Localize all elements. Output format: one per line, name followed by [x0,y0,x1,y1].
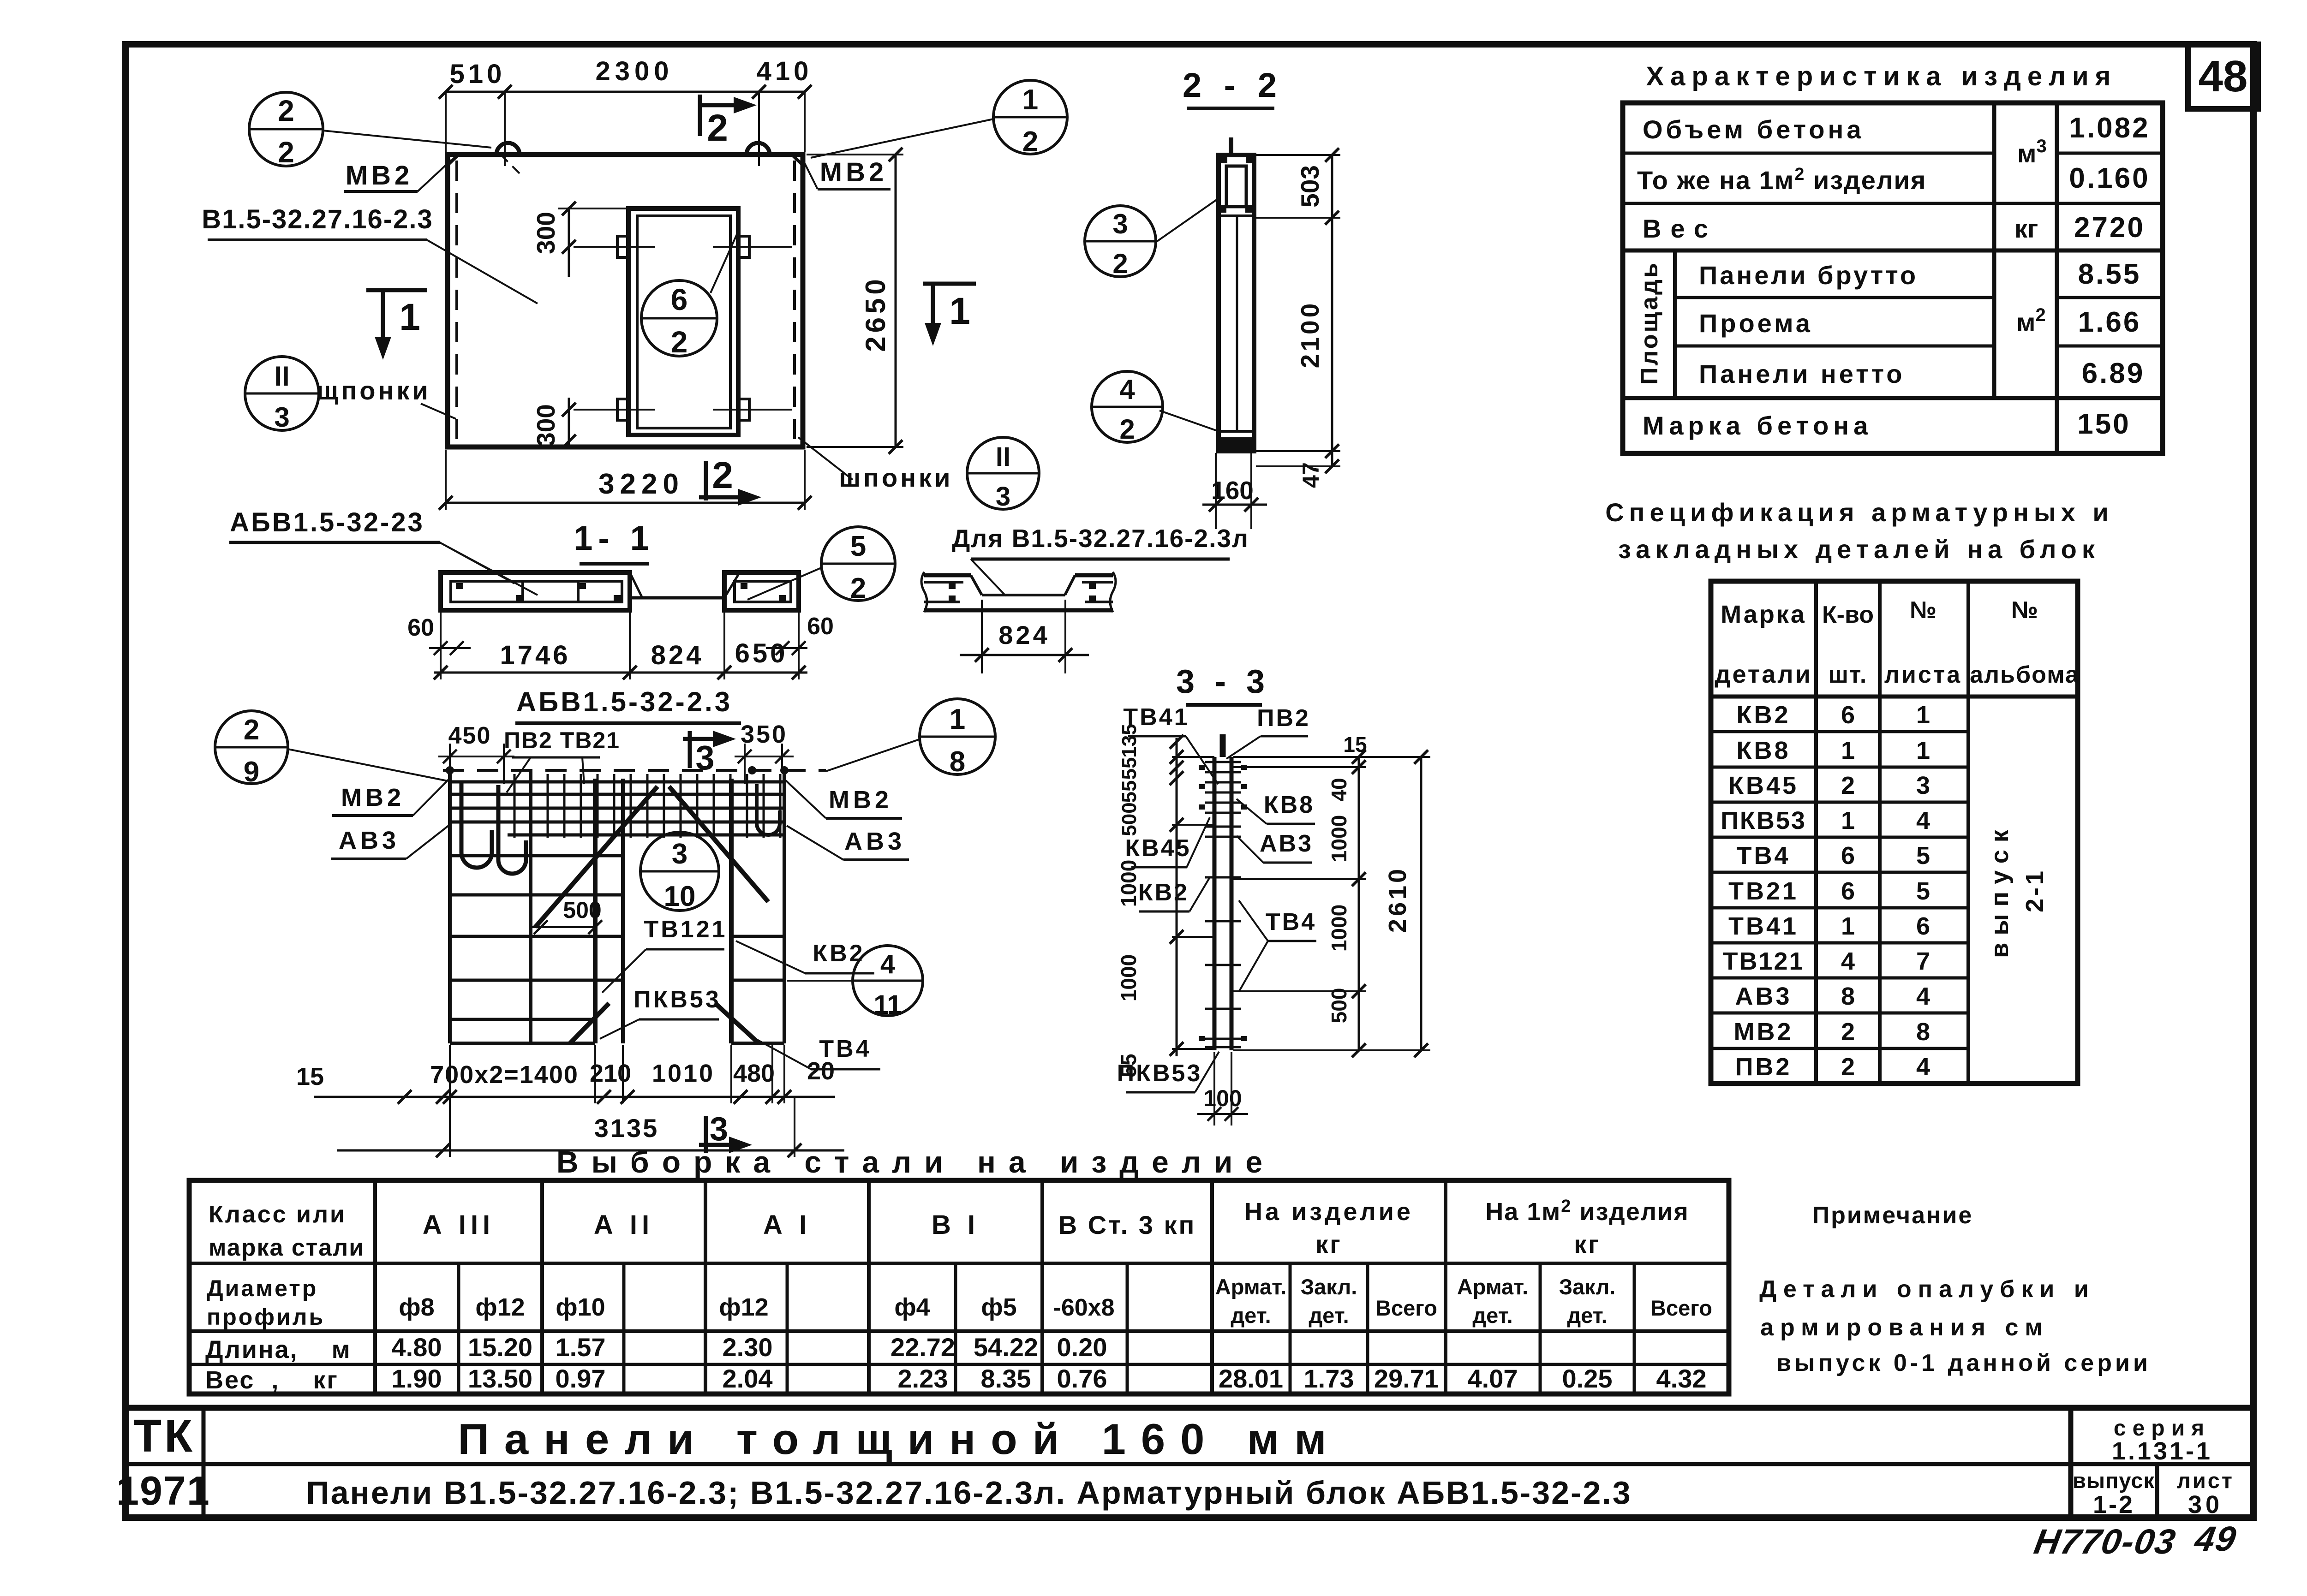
svg-text:шпонки: шпонки [839,463,953,492]
svg-text:Детали опалубки и: Детали опалубки и [1759,1276,2095,1303]
svg-text:8: 8 [1916,1018,1930,1046]
svg-text:0.76: 0.76 [1057,1364,1107,1393]
svg-text:450: 450 [448,722,491,749]
svg-text:8: 8 [950,746,965,778]
svg-text:кг: кг [1574,1231,1601,1258]
svg-text:II: II [996,442,1010,472]
svg-text:ф10: ф10 [556,1293,605,1321]
svg-text:22.72: 22.72 [891,1333,955,1362]
svg-text:закладных деталей на блок: закладных деталей на блок [1618,535,2100,564]
svg-text:Армат.: Армат. [1215,1274,1286,1299]
svg-text:29.71: 29.71 [1374,1364,1439,1393]
svg-text:АБВ1.5-32-23: АБВ1.5-32-23 [230,507,424,537]
svg-text:8: 8 [1841,983,1855,1010]
svg-text:4: 4 [1916,1053,1930,1081]
svg-text:На изделие: На изделие [1244,1198,1413,1226]
svg-text:1: 1 [1916,737,1930,764]
svg-text:детали: детали [1715,661,1812,688]
svg-text:510: 510 [450,59,506,89]
svg-text:То же на 1м2 изделия: То же на 1м2 изделия [1637,165,1927,195]
svg-text:47: 47 [1298,462,1324,488]
svg-text:1000: 1000 [1117,954,1141,1001]
svg-text:выпуск: выпуск [1986,822,2014,958]
svg-text:60: 60 [407,614,434,641]
svg-text:Всего: Всего [1650,1296,1712,1320]
svg-text:1.082: 1.082 [2069,112,2150,144]
svg-text:ПВ2: ПВ2 [1735,1053,1792,1081]
svg-text:1.57: 1.57 [556,1333,606,1362]
svg-text:6: 6 [671,282,688,316]
svg-text:ф12: ф12 [475,1293,525,1321]
svg-text:ТВ121: ТВ121 [1722,947,1804,975]
svg-text:49: 49 [2191,1520,2240,1559]
svg-text:2: 2 [278,136,294,169]
svg-text:АВ3: АВ3 [1735,983,1792,1010]
svg-text:КВ8: КВ8 [1737,737,1791,764]
svg-text:1.66: 1.66 [2078,306,2141,338]
svg-text:шт.: шт. [1829,661,1868,688]
svg-text:0.25: 0.25 [1562,1364,1613,1393]
svg-text:2: 2 [1112,248,1128,279]
svg-text:Закл.: Закл. [1559,1274,1616,1299]
svg-text:МВ2: МВ2 [1733,1018,1793,1046]
svg-text:ТВ121: ТВ121 [644,916,727,943]
svg-text:700х2=1400: 700х2=1400 [430,1061,579,1089]
svg-text:4.32: 4.32 [1656,1364,1707,1393]
svg-text:650: 650 [735,638,788,668]
svg-text:20: 20 [807,1057,835,1085]
svg-text:№: № [2011,597,2038,624]
svg-text:профиль: профиль [207,1304,325,1330]
svg-text:4: 4 [1916,807,1930,834]
svg-text:ПВ2 ТВ21: ПВ2 ТВ21 [504,727,620,753]
svg-text:Марка бетона: Марка бетона [1643,411,1872,440]
svg-text:Проема: Проема [1699,309,1813,338]
svg-text:15: 15 [1343,732,1367,756]
svg-text:15.20: 15.20 [468,1333,532,1362]
svg-text:ПКВ53: ПКВ53 [634,986,721,1013]
svg-text:КВ45: КВ45 [1728,772,1799,799]
svg-text:1000: 1000 [1327,905,1351,952]
svg-text:2: 2 [671,325,688,359]
svg-text:КВ2: КВ2 [1737,701,1791,729]
svg-text:2-1: 2-1 [2021,868,2049,912]
svg-text:кг: кг [1315,1231,1342,1258]
svg-text:1746: 1746 [500,640,570,670]
svg-text:4.80: 4.80 [392,1333,442,1362]
svg-text:210: 210 [590,1060,631,1087]
svg-text:Армат.: Армат. [1457,1274,1528,1299]
svg-text:6: 6 [1841,842,1855,869]
svg-text:1971: 1971 [116,1468,210,1513]
svg-text:выпуск: выпуск [2073,1468,2155,1493]
svg-text:160: 160 [1211,476,1254,505]
svg-text:1.73: 1.73 [1304,1364,1354,1393]
svg-text:Н770-03: Н770-03 [2031,1523,2179,1561]
svg-text:А II: А II [594,1210,654,1240]
svg-text:2 - 2: 2 - 2 [1183,66,1283,104]
svg-text:2: 2 [1022,126,1038,158]
svg-text:8.35: 8.35 [981,1364,1031,1393]
svg-text:1: 1 [1841,737,1855,764]
svg-text:Марка: Марка [1721,601,1806,628]
svg-text:3 - 3: 3 - 3 [1176,663,1270,700]
svg-text:60: 60 [807,613,834,640]
svg-text:ПКВ53: ПКВ53 [1721,807,1806,834]
svg-text:4: 4 [1916,983,1930,1010]
svg-text:2720: 2720 [2074,212,2145,244]
svg-text:10: 10 [664,881,696,912]
svg-text:4: 4 [1841,947,1855,975]
svg-text:1: 1 [1841,807,1855,834]
svg-text:Вес , кг: Вес , кг [205,1366,339,1394]
svg-text:55: 55 [1118,757,1141,780]
svg-text:МВ2: МВ2 [346,161,413,191]
svg-text:2: 2 [1841,1018,1855,1046]
svg-text:3135: 3135 [594,1114,659,1143]
svg-text:3: 3 [1916,772,1930,799]
svg-text:Панели нетто: Панели нетто [1699,359,1905,388]
svg-text:МВ2: МВ2 [341,784,405,811]
svg-text:40: 40 [1327,778,1351,801]
svg-text:Класс или: Класс или [209,1201,347,1228]
svg-text:6: 6 [1841,877,1855,905]
svg-text:1000: 1000 [1327,815,1351,862]
svg-text:альбома: альбома [1970,661,2080,688]
svg-text:дет.: дет. [1231,1303,1271,1328]
svg-text:армирования см: армирования см [1760,1314,2049,1341]
svg-text:щпонки: щпонки [317,376,431,405]
svg-text:2300: 2300 [595,56,673,86]
svg-text:1.131-1: 1.131-1 [2112,1437,2212,1465]
svg-text:В Ст. 3 кп: В Ст. 3 кп [1058,1210,1196,1239]
svg-text:1: 1 [1841,912,1855,940]
svg-text:ТВ4: ТВ4 [1736,842,1790,869]
svg-text:2.30: 2.30 [723,1333,773,1362]
svg-text:2: 2 [1841,772,1855,799]
svg-text:2: 2 [707,107,728,149]
svg-text:9: 9 [244,756,259,788]
svg-text:503: 503 [1296,165,1324,208]
svg-text:кг: кг [2014,214,2038,243]
svg-text:К-во: К-во [1822,601,1874,628]
svg-text:АВ3: АВ3 [1260,830,1313,857]
svg-text:824: 824 [998,620,1050,649]
svg-text:А III: А III [423,1210,495,1240]
svg-text:ПКВ53: ПКВ53 [1117,1060,1202,1087]
svg-text:Вес: Вес [1643,214,1717,243]
svg-text:А I: А I [763,1210,811,1240]
svg-text:дет.: дет. [1472,1303,1512,1328]
svg-text:ф4: ф4 [894,1293,930,1321]
svg-text:КВ2: КВ2 [1138,879,1189,906]
svg-text:ТВ21: ТВ21 [1728,877,1799,905]
svg-text:6.89: 6.89 [2082,357,2145,389]
svg-text:Площадь: Площадь [1636,261,1663,385]
svg-text:150: 150 [2077,408,2130,440]
svg-text:АВ3: АВ3 [339,827,400,854]
svg-text:ф5: ф5 [981,1293,1016,1321]
svg-text:3: 3 [996,482,1010,512]
svg-text:2: 2 [1119,414,1135,445]
svg-text:марка стали: марка стали [209,1234,365,1261]
svg-text:4: 4 [880,949,895,979]
svg-text:1: 1 [399,296,420,338]
svg-text:Спецификация арматурных и: Спецификация арматурных и [1605,498,2114,527]
svg-text:1.90: 1.90 [392,1364,442,1393]
svg-text:1010: 1010 [652,1060,715,1087]
svg-text:2: 2 [278,94,294,127]
svg-text:3: 3 [710,1111,728,1148]
svg-text:ТК: ТК [133,1410,195,1462]
svg-text:6: 6 [1841,701,1855,729]
svg-text:55: 55 [1118,780,1141,803]
svg-text:Объем бетона: Объем бетона [1643,115,1864,144]
svg-text:300: 300 [532,404,560,447]
svg-text:54.22: 54.22 [974,1333,1038,1362]
svg-text:лист: лист [2177,1468,2234,1493]
svg-text:Для В1.5-32.27.16-2.3л: Для В1.5-32.27.16-2.3л [952,524,1249,553]
svg-text:Панели толщиной 160 мм: Панели толщиной 160 мм [458,1415,1341,1463]
svg-text:100: 100 [1203,1085,1242,1111]
svg-text:5: 5 [1916,842,1930,869]
svg-text:350: 350 [741,721,788,748]
svg-text:Характеристика изделия: Характеристика изделия [1646,61,2117,91]
svg-text:ф12: ф12 [719,1293,768,1321]
svg-text:4.07: 4.07 [1468,1364,1518,1393]
svg-text:1: 1 [949,290,970,332]
svg-text:АВ3: АВ3 [844,828,905,855]
svg-text:АБВ1.5-32-2.3: АБВ1.5-32-2.3 [516,686,732,717]
svg-text:КВ45: КВ45 [1125,835,1191,862]
svg-text:В I: В I [932,1210,980,1240]
svg-text:Длина, м: Длина, м [205,1336,352,1364]
svg-text:1: 1 [1916,701,1930,729]
svg-text:5: 5 [1916,877,1930,905]
svg-text:выпуск 0-1 данной серии: выпуск 0-1 данной серии [1776,1350,2151,1376]
svg-text:5: 5 [850,530,866,562]
svg-text:7: 7 [1916,947,1930,975]
svg-text:824: 824 [651,640,704,670]
svg-text:11: 11 [873,990,902,1020]
svg-text:2: 2 [712,454,733,496]
svg-text:300: 300 [532,212,560,254]
svg-text:2: 2 [850,572,866,604]
svg-text:МВ2: МВ2 [820,157,887,187]
svg-text:Диаметр: Диаметр [207,1275,318,1301]
svg-text:3: 3 [1112,208,1128,239]
svg-text:2100: 2100 [1296,301,1324,368]
svg-text:2610: 2610 [1384,866,1411,933]
svg-text:0.20: 0.20 [1057,1333,1107,1362]
svg-text:30: 30 [2188,1491,2223,1519]
svg-text:13.50: 13.50 [468,1364,532,1393]
svg-text:410: 410 [757,56,813,86]
svg-text:500: 500 [1118,802,1141,836]
svg-text:дет.: дет. [1567,1303,1607,1328]
svg-text:ф8: ф8 [399,1293,434,1321]
svg-text:4: 4 [1119,374,1135,405]
svg-text:На 1м2 изделия: На 1м2 изделия [1485,1197,1689,1226]
svg-text:0.160: 0.160 [2069,162,2150,194]
svg-text:500: 500 [563,897,601,923]
svg-text:№: № [1910,597,1936,624]
svg-text:2: 2 [1841,1053,1855,1081]
svg-text:48: 48 [2199,52,2248,101]
svg-text:28.01: 28.01 [1219,1364,1283,1393]
svg-text:500: 500 [1327,988,1351,1024]
svg-text:8.55: 8.55 [2078,258,2141,290]
svg-text:480: 480 [733,1060,775,1087]
svg-text:3: 3 [274,402,289,433]
svg-text:6: 6 [1916,912,1930,940]
svg-text:II: II [274,361,289,392]
svg-text:КВ8: КВ8 [1264,792,1315,818]
svg-text:МВ2: МВ2 [829,786,892,814]
svg-text:3220: 3220 [598,468,684,500]
svg-text:1: 1 [950,703,965,735]
svg-text:2650: 2650 [860,275,891,351]
svg-text:3: 3 [672,838,687,870]
svg-text:ПВ2: ПВ2 [1257,705,1310,732]
svg-text:2.04: 2.04 [723,1364,773,1393]
svg-text:0.97: 0.97 [556,1364,606,1393]
svg-text:1: 1 [1022,84,1038,116]
svg-text:1-2: 1-2 [2093,1491,2134,1519]
svg-text:2.23: 2.23 [898,1364,948,1393]
svg-text:дет.: дет. [1309,1303,1349,1328]
svg-text:листа: листа [1884,661,1962,688]
svg-text:15: 15 [296,1063,324,1090]
svg-text:Всего: Всего [1375,1296,1437,1320]
svg-text:Примечание: Примечание [1812,1202,1973,1229]
svg-text:-60х8: -60х8 [1053,1294,1115,1321]
svg-text:Панели В1.5-32.27.16-2.3; В1.5: Панели В1.5-32.27.16-2.3; В1.5-32.27.16-… [306,1475,1632,1511]
svg-text:ТВ41: ТВ41 [1728,912,1799,940]
svg-text:135: 135 [1118,724,1141,757]
svg-text:2: 2 [244,714,259,746]
svg-text:Панели брутто: Панели брутто [1699,261,1918,290]
svg-text:В1.5-32.27.16-2.3: В1.5-32.27.16-2.3 [202,204,433,234]
svg-text:1- 1: 1- 1 [574,519,655,557]
svg-text:ТВ4: ТВ4 [1266,909,1316,935]
svg-text:Закл.: Закл. [1301,1274,1357,1299]
